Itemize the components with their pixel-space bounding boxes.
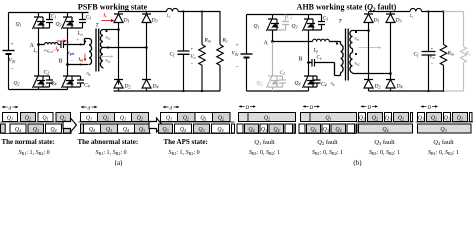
wire: cap to primary	[64, 39, 90, 45]
svg-text:Vo: Vo	[430, 55, 435, 60]
svg-text:Rc: Rc	[222, 38, 228, 44]
capacitor Cf (left)	[178, 12, 190, 92]
pulse Q4	[269, 124, 284, 133]
grey current-path arrow (unused ns2 path)	[101, 55, 114, 58]
gate pattern: abnormal state row1	[81, 113, 149, 122]
pulse Q2	[427, 113, 442, 122]
wire: Lr to blocking cap	[58, 44, 60, 46]
gate pattern: Q3 fault row1	[359, 113, 413, 122]
transformer core (right)	[346, 29, 349, 81]
svg-text:Q3: Q3	[198, 127, 204, 133]
junction dots at primary	[80, 44, 82, 46]
svg-text:−: −	[71, 60, 74, 65]
svg-text:Q1: Q1	[7, 116, 13, 122]
wire: left input top rail	[9, 12, 89, 14]
capacitor C1	[43, 13, 53, 29]
svg-text:Q2 fault: Q2 fault	[317, 139, 338, 146]
axis row1 (a1)	[1, 121, 72, 123]
pulse stub	[1, 124, 6, 133]
centre tap dot	[107, 46, 109, 48]
pulse Q2	[132, 113, 149, 122]
pulse Q4	[10, 124, 26, 133]
pulse Q2	[98, 113, 115, 122]
pulse stub	[411, 113, 413, 122]
pulse Q2	[178, 113, 196, 122]
svg-text:Q1: Q1	[166, 116, 172, 122]
axis row1 (a2)	[79, 121, 151, 123]
pulse labels (b2 row2)	[310, 127, 341, 133]
pulse stub	[470, 113, 473, 122]
svg-text:Lr: Lr	[33, 49, 39, 54]
pulse Q4	[307, 124, 321, 133]
capacitor C3	[72, 13, 86, 29]
svg-text:Q1 fault: Q1 fault	[254, 139, 275, 146]
svg-text:Rm: Rm	[447, 51, 454, 57]
current arrow im (red)	[84, 54, 86, 60]
wire: secondary bottom to rect leg2 (right)	[353, 73, 391, 75]
resistor Rc (right, faded)	[461, 12, 467, 92]
svg-text:Q4: Q4	[51, 81, 57, 87]
svg-text:Q1: Q1	[418, 116, 424, 122]
svg-text:Q3: Q3	[292, 24, 298, 30]
svg-text:SR1: 0, SR2: 1: SR1: 0, SR2: 1	[369, 150, 400, 156]
axis row2 (b2)	[299, 133, 357, 135]
svg-text:np: np	[87, 71, 91, 77]
polarity dots secondary (right)	[355, 31, 357, 33]
svg-text:The normal state:: The normal state:	[2, 138, 55, 146]
current arrow ip (red)	[57, 40, 65, 42]
axis row2 (a1)	[1, 133, 72, 135]
pulse Q2	[368, 113, 383, 122]
MOSFET Q2 (right, faded)	[267, 74, 280, 92]
pulse stub	[356, 124, 357, 133]
wire: centre tap to rectifier leg2	[103, 47, 147, 49]
pulse Q3	[135, 124, 150, 133]
wire: rectifier leg2 mid	[146, 48, 148, 80]
pulse labels (a3)	[162, 116, 224, 134]
MOSFET Q1	[33, 13, 46, 31]
diode D4 (right)	[386, 80, 395, 92]
pulse Q4	[118, 124, 135, 133]
gate pattern: Q4 fault row1	[418, 113, 473, 122]
wire: rectifier bottom rail (left)	[114, 90, 221, 92]
svg-text:SR1: 0, SR2: 1: SR1: 0, SR2: 1	[312, 150, 343, 156]
gate pattern: Q3 fault, long pulse Q4	[359, 124, 413, 133]
capacitor C4 (right)	[313, 76, 321, 87]
pulse Q2	[56, 113, 71, 122]
pulse Q1	[418, 113, 425, 122]
svg-text:Q4: Q4	[89, 127, 95, 133]
pulse Q4	[175, 124, 192, 133]
wire: rect leg2 mid (right)	[390, 74, 392, 80]
transformer secondary ns2 (right)	[350, 53, 353, 74]
svg-text:B: B	[59, 59, 63, 65]
pulse labels (b1 row2)	[248, 127, 279, 133]
capacitor C3 (right)	[313, 15, 325, 31]
svg-text:D1: D1	[373, 18, 380, 24]
capacitor C1 (right, faded)	[277, 15, 289, 31]
svg-text:Q2: Q2	[257, 81, 263, 87]
svg-text:Q4: Q4	[15, 127, 21, 133]
gate pattern: Q2 fault, long pulse Q1	[301, 113, 357, 122]
axis row2 (b1)	[237, 133, 296, 135]
wire: faded bottom extension to Rc (right)	[444, 90, 464, 92]
wire: Lp to primary top	[329, 41, 340, 43]
svg-text:Q2: Q2	[398, 116, 404, 122]
svg-text:Q1: Q1	[254, 24, 260, 30]
transformer T primary winding (right)	[341, 42, 344, 76]
gate pattern: normal state row1	[3, 113, 71, 122]
pulse labels (a1)	[7, 116, 66, 134]
wire: secondary top to rect leg1 (right)	[353, 30, 369, 32]
wire: rectifier leg1 mid	[118, 31, 120, 85]
wire: right input rail lower	[246, 58, 248, 92]
pulse Q4	[212, 124, 230, 133]
gate pattern: normal state row2	[1, 124, 72, 133]
svg-text:Q2: Q2	[60, 116, 66, 122]
duty annotation d (diagram a3)	[163, 106, 180, 108]
wire: output top rail (left)	[178, 11, 220, 13]
svg-text:−: −	[11, 67, 14, 73]
svg-text:+: +	[236, 43, 239, 49]
svg-text:Q2: Q2	[457, 116, 463, 122]
wire: rect leg1 mid (right)	[368, 31, 370, 80]
axis row1 (b4)	[416, 121, 474, 123]
svg-text:SR1: 1, SR2: 0: SR1: 1, SR2: 0	[169, 150, 200, 156]
pulse Q1	[385, 113, 392, 122]
svg-text:Vdc: Vdc	[9, 58, 16, 64]
svg-text:D: D	[427, 106, 432, 111]
capacitor Cf (right)	[422, 12, 436, 92]
svg-text:Q4: Q4	[217, 127, 223, 133]
svg-text:Q4: Q4	[180, 127, 186, 133]
wire: rect top rail (right)	[369, 11, 411, 13]
resistor Rc (left)	[217, 12, 223, 92]
pulse labels (b3 row1)	[359, 116, 404, 122]
svg-text:Lp: Lp	[313, 49, 319, 54]
svg-text:Q2: Q2	[137, 116, 143, 122]
gate pattern: APS state row1	[161, 113, 231, 122]
duty annotation d (diagram a2)	[81, 106, 98, 108]
wire: A to Lp	[273, 41, 313, 43]
gate pattern: abnormal state row2	[81, 124, 150, 133]
polarity dot primary	[84, 40, 86, 42]
svg-text:Q1: Q1	[359, 116, 365, 122]
transformer core	[96, 29, 99, 72]
pulse Q1	[81, 113, 98, 122]
gate pattern: Q2 fault row2	[299, 124, 357, 133]
svg-text:Q2: Q2	[25, 116, 31, 122]
wire: B to primary bottom	[68, 64, 89, 66]
svg-text:SR1: 1, SR2: 0: SR1: 1, SR2: 0	[19, 150, 50, 156]
pulse Q2	[213, 113, 231, 122]
inductor Lr	[45, 43, 59, 45]
svg-text:+vCb−: +vCb−	[44, 49, 56, 54]
svg-text:Q1: Q1	[444, 116, 450, 122]
node B (right)	[307, 61, 310, 64]
svg-text:C1: C1	[51, 14, 57, 20]
svg-text:Q2: Q2	[372, 116, 378, 122]
svg-text:Q4: Q4	[335, 127, 341, 133]
svg-text:A: A	[264, 41, 269, 47]
grey current-path arrow (right rect)	[359, 46, 382, 49]
wire: left input bottom rail	[9, 89, 68, 91]
polarity dot secondary	[105, 30, 107, 32]
svg-text:Q4: Q4	[382, 127, 388, 133]
wire: leg2 between Q3 and Q4	[67, 31, 69, 74]
svg-text:Cb: Cb	[317, 56, 322, 61]
pulse stub	[64, 124, 72, 133]
pulse Q3	[194, 124, 210, 133]
diode D2	[114, 80, 123, 92]
wire: rect bottom rail (right)	[369, 90, 444, 92]
wire: output top rail (right)	[422, 11, 444, 13]
svg-text:D3: D3	[395, 18, 402, 24]
wire: rectifier top rail (left)	[119, 11, 167, 13]
inductor Lp	[313, 39, 330, 41]
svg-text:D2: D2	[374, 84, 381, 90]
gate pattern: APS state row2	[159, 124, 235, 133]
resistor Rm (right)	[440, 12, 446, 92]
svg-text:vpri: vpri	[68, 50, 76, 56]
svg-text:B: B	[299, 57, 303, 63]
MOSFET Q4 (right)	[303, 74, 316, 92]
transformer T primary winding np	[89, 39, 92, 65]
capacitor C2 (right, faded)	[277, 76, 286, 87]
MOSFET Q3 (right)	[303, 15, 316, 33]
pulse Q2	[21, 113, 36, 122]
svg-text:D: D	[245, 106, 250, 111]
svg-text:ns1: ns1	[355, 36, 360, 42]
MOSFET Q3	[62, 13, 75, 31]
diode D4	[142, 80, 151, 92]
gate pattern: Q4 fault, long pulse Q3	[418, 124, 472, 133]
svg-text:SR1: 0, SR2: 1: SR1: 0, SR2: 1	[428, 150, 459, 156]
svg-text:SR1: 0, SR2: 1: SR1: 0, SR2: 1	[249, 150, 280, 156]
svg-text:is: is	[104, 13, 108, 19]
gate pattern: Q1 fault row2	[237, 124, 296, 133]
svg-text:D2: D2	[124, 84, 131, 90]
svg-text:Q3: Q3	[139, 127, 145, 133]
svg-text:Q1: Q1	[86, 116, 92, 122]
svg-text:np: np	[331, 81, 335, 87]
axis row2 (a3)	[159, 133, 235, 135]
pulse Q2	[453, 113, 468, 122]
svg-text:Q1: Q1	[120, 116, 126, 122]
pulse Q3	[285, 124, 293, 133]
diode D3 (right)	[386, 12, 395, 74]
svg-text:+: +	[191, 48, 194, 53]
svg-text:−: −	[431, 62, 434, 67]
svg-text:Q4: Q4	[248, 127, 254, 133]
pulse Q4	[245, 124, 259, 133]
pulse Q3	[101, 124, 118, 133]
wire: A to Lr	[39, 44, 45, 46]
wire: right input rail upper	[246, 15, 248, 55]
MOSFET Q4	[62, 74, 75, 90]
transformer secondary winding ns2	[100, 48, 103, 69]
svg-text:Q3: Q3	[33, 127, 39, 133]
diode D1 (right)	[364, 12, 373, 31]
pulse stub	[232, 124, 235, 133]
duty annotation D (diagram b1)	[239, 105, 257, 107]
svg-text:Q3: Q3	[261, 127, 267, 133]
svg-text:Q4 fault: Q4 fault	[433, 139, 454, 146]
svg-text:D4: D4	[152, 84, 159, 90]
svg-text:Q2: Q2	[218, 116, 224, 122]
pulse Q1	[161, 113, 178, 122]
svg-text:Vo: Vo	[191, 55, 196, 60]
svg-text:Q3: Q3	[323, 127, 329, 133]
pulse Q4	[84, 124, 101, 133]
svg-text:The APS state:: The APS state:	[164, 138, 208, 146]
pulse Q3	[347, 124, 355, 133]
svg-text:ns1: ns1	[106, 35, 111, 41]
capacitor C4	[72, 76, 84, 87]
svg-text:C2: C2	[44, 70, 50, 76]
pulse labels (b4 row1)	[418, 116, 463, 122]
svg-text:Q3: Q3	[162, 127, 168, 133]
svg-text:D3: D3	[151, 18, 158, 24]
wire: secondary top to rectifier leg1	[103, 29, 119, 31]
svg-text:−: −	[236, 65, 239, 71]
svg-text:D1: D1	[123, 18, 130, 24]
svg-text:Q4: Q4	[50, 127, 56, 133]
pulse Q1	[444, 113, 451, 122]
pulse Q4	[46, 124, 62, 133]
svg-text:Q4: Q4	[273, 127, 279, 133]
pulse stub	[81, 124, 84, 133]
MOSFET Q1 (right)	[267, 15, 280, 33]
transformer secondary ns1 (right)	[350, 31, 353, 53]
svg-text:C3: C3	[323, 16, 329, 22]
pulse Q4	[331, 124, 346, 133]
svg-text:Q1: Q1	[325, 116, 331, 122]
svg-text:Q2: Q2	[183, 116, 189, 122]
svg-text:+: +	[77, 39, 80, 44]
duty annotation D (diagram b2)	[303, 105, 321, 107]
blocking capacitor Cb (series)	[61, 41, 64, 48]
duty annotation D (diagram b4)	[421, 105, 439, 107]
inductor Lf (right)	[410, 8, 422, 11]
svg-text:C4: C4	[84, 83, 90, 89]
svg-text:Vdc: Vdc	[232, 51, 239, 57]
node B	[66, 63, 69, 66]
svg-text:im: im	[79, 57, 84, 63]
svg-text:Q1: Q1	[200, 116, 206, 122]
svg-text:Q2: Q2	[14, 81, 20, 87]
svg-text:Q3: Q3	[56, 22, 62, 28]
transition arrow 2	[149, 118, 163, 132]
node A	[37, 43, 40, 46]
wire: faded leg to Q2	[272, 42, 274, 74]
pulse Q3	[322, 124, 330, 133]
svg-text:Q3 fault: Q3 fault	[374, 139, 395, 146]
pulse Q1	[38, 113, 53, 122]
svg-text:+: +	[431, 48, 434, 53]
svg-text:SR1: 1, SR2: 0: SR1: 1, SR2: 0	[96, 150, 127, 156]
duty annotation D (diagram b3)	[361, 105, 379, 107]
svg-text:Q4: Q4	[310, 127, 316, 133]
wire: faded top extension to Rc (right)	[444, 11, 464, 13]
wire: Q1 source to node A	[272, 33, 274, 42]
wire: cap to primary bottom	[315, 63, 341, 76]
wire: right input bottom rail	[247, 90, 309, 92]
svg-text:D: D	[367, 106, 372, 111]
svg-text:The abnormal state:: The abnormal state:	[78, 138, 139, 146]
svg-text:D4: D4	[396, 84, 403, 90]
polarity dot primary (right)	[336, 42, 338, 44]
node A (right)	[271, 40, 274, 43]
MOSFET Q2	[33, 74, 46, 90]
svg-text:PSFB working state: PSFB working state	[78, 3, 148, 12]
battery Vdc (left)	[3, 50, 15, 52]
svg-text:ns2: ns2	[106, 58, 111, 64]
svg-text:Q3: Q3	[440, 127, 446, 133]
svg-text:Q3: Q3	[106, 127, 112, 133]
svg-text:C1: C1	[287, 15, 293, 21]
wire: left input rail upper	[8, 13, 10, 51]
transition arrow 1	[63, 118, 77, 132]
svg-text:Q2: Q2	[264, 116, 270, 122]
pulse Q3	[28, 124, 44, 133]
diode D1	[114, 12, 123, 31]
capacitor C2	[43, 76, 53, 87]
pulse Q1	[195, 113, 213, 122]
diode D3	[142, 12, 151, 48]
battery Vdc (right)	[241, 53, 253, 55]
axis row2 (a2)	[79, 133, 151, 135]
resistor Rm (left)	[199, 12, 205, 92]
svg-text:D: D	[309, 106, 314, 111]
axis row1 (b3)	[357, 121, 414, 123]
pulse Q3 stub	[299, 124, 305, 133]
pulse Q3 stub	[237, 124, 243, 133]
svg-text:(a): (a)	[115, 159, 123, 166]
pulse Q3	[159, 124, 173, 133]
pulse Q2	[394, 113, 409, 122]
pulse labels (a2)	[86, 116, 145, 134]
pulse Q1	[3, 113, 18, 122]
svg-text:−: −	[191, 62, 194, 67]
pulse stub	[294, 124, 296, 133]
blocking capacitor Cb (right)	[312, 59, 315, 67]
svg-text:C2: C2	[280, 70, 286, 76]
svg-text:ns2: ns2	[355, 61, 360, 67]
svg-text:Lm: Lm	[77, 32, 84, 37]
svg-text:+: +	[11, 42, 14, 48]
wire: right input top rail	[247, 14, 322, 16]
duty annotation d (diagram a1)	[2, 106, 19, 108]
svg-text:ip: ip	[56, 46, 60, 52]
svg-text:Rm: Rm	[204, 38, 211, 44]
svg-text:Q2: Q2	[431, 116, 437, 122]
transformer secondary winding ns1	[100, 30, 103, 48]
wire: left input rail lower	[8, 54, 10, 90]
wire: leg1 between Q1 and Q2	[38, 31, 40, 74]
wire: B to blocking cap	[309, 62, 313, 64]
pulse Q3	[260, 124, 268, 133]
svg-text:Q4: Q4	[295, 81, 301, 87]
diode D2 (right)	[364, 80, 373, 92]
svg-text:Rc: Rc	[465, 51, 471, 57]
gate pattern: Q1 fault, long pulse Q2	[239, 113, 296, 122]
pulse Q1	[359, 113, 366, 122]
svg-text:C4: C4	[321, 82, 327, 88]
svg-text:Q1: Q1	[385, 116, 391, 122]
svg-text:C3: C3	[86, 15, 92, 21]
inductor Lf (left)	[167, 8, 179, 11]
